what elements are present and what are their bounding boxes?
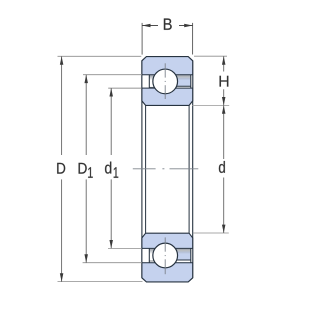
bore silhouette line right (188, 105, 190, 233)
inner ring shoulder line left (149, 86, 155, 88)
B dimension: extension line right (192, 23, 194, 55)
outer ring recess edge left (148, 75, 150, 88)
D1 label (79, 163, 87, 174)
D1 dimension: bottom extension line (83, 262, 142, 264)
upper raceway gap (white band between rings) (142, 63, 193, 99)
bore silhouette line left (145, 105, 147, 233)
D dimension: top extension line (58, 55, 142, 57)
upper ring section (outer+inner ring cross-section, blue) (142, 57, 193, 106)
d dimension: bottom extension line (193, 232, 229, 234)
D dimension: bottom extension line (58, 281, 143, 283)
d1 label (105, 162, 111, 174)
H/d shared extension line (bore top level) (192, 104, 229, 106)
groove shading gradient (149, 249, 191, 254)
H dimension line + arrows (222, 56, 226, 105)
d1 dimension: top extension line (108, 87, 142, 89)
bearing axis centerline (horizontal dash-dot) (133, 168, 199, 170)
D1 dimension: top extension line (83, 74, 142, 76)
bearing body outline (full rounded rectangle, outer diameter D silhouette) (142, 57, 193, 282)
groove shading gradient (149, 75, 191, 80)
B label (164, 19, 172, 30)
D dimension line + arrows (60, 56, 64, 281)
d dimension line + arrows (222, 105, 226, 233)
B dimension: extension line left (141, 23, 143, 55)
inner ring OD line (band top, d1) (142, 247, 193, 249)
d1 dimension: bottom extension line (108, 247, 142, 249)
H dimension: top extension line (outer diameter level) (194, 55, 227, 57)
inner ring shoulder line left (149, 260, 155, 262)
H label (220, 76, 229, 87)
D1 dimension line + arrows (84, 75, 88, 263)
seal groove edge right (190, 248, 192, 262)
lower ball centerline (dash-dot) (164, 237, 166, 251)
B dimension line + arrows (142, 24, 193, 28)
seal groove edge right (190, 75, 192, 88)
upper ball centerline (dash-dot) (164, 63, 166, 77)
inner ring OD line (band bottom, d1) (142, 87, 193, 89)
recess edge left (148, 248, 150, 262)
D label (57, 163, 65, 174)
d1 dimension line + arrows (109, 88, 113, 248)
ball lower (153, 243, 178, 268)
d label (219, 161, 225, 173)
outer ring bore line (band bottom, D1) (142, 262, 193, 264)
cage cross-section (blue strip right of ball) (165, 251, 191, 260)
cage cross-section (blue strip right of ball) (165, 78, 191, 87)
ball upper (153, 69, 178, 94)
outer ring bore line (band top, D1) (142, 74, 193, 76)
lower ring section (blue, mirrored) (142, 233, 193, 282)
lower raceway gap (white band between rings) (142, 237, 193, 274)
